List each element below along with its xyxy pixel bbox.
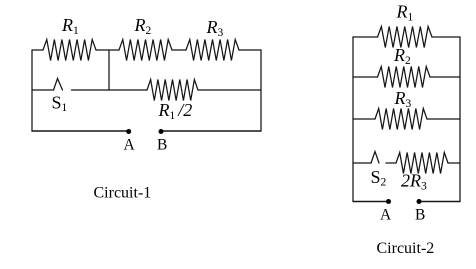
- wire: row2 right stub: [430, 76, 460, 78]
- svg-text:R1: R1: [61, 15, 79, 37]
- svg-text:B: B: [415, 207, 425, 224]
- svg-text:S2: S2: [371, 167, 387, 189]
- resistor R1/2 (circuit-1): [147, 80, 198, 101]
- resistor R3 (circuit-1): [186, 40, 239, 61]
- wire: bottom terminal B to right rail (circuit-2): [419, 201, 460, 203]
- node A terminal dot (circuit-1): [126, 129, 131, 134]
- svg-text:2R3: 2R3: [401, 171, 427, 193]
- node B terminal dot (circuit-2): [417, 199, 422, 204]
- svg-text:R3: R3: [394, 88, 412, 110]
- node A terminal dot (circuit-2): [386, 199, 391, 204]
- resistor R1 (circuit-1): [43, 40, 96, 61]
- resistor R2 (circuit-2): [378, 67, 431, 88]
- svg-text:R1: R1: [396, 2, 414, 24]
- wire: bottom terminal B to right rail: [161, 130, 261, 132]
- wire: row4 right stub: [448, 162, 460, 164]
- svg-text:Circuit-2: Circuit-2: [377, 240, 435, 257]
- resistor R3 (circuit-2): [375, 109, 427, 130]
- wire: middle branch right to rail: [198, 89, 261, 91]
- wire: top between R1 and R2: [96, 49, 119, 51]
- node B terminal dot (circuit-1): [159, 129, 164, 134]
- wire: circuit-1 left rail: [31, 50, 33, 131]
- switch S1 blade: [54, 79, 63, 91]
- svg-text:B: B: [157, 137, 167, 154]
- node: junction vertical between R1/R2 down to middle branch: [108, 50, 110, 90]
- wire: middle branch from switch gap to R1/2: [72, 89, 148, 91]
- svg-text:R2: R2: [134, 15, 152, 37]
- wire: row2 left stub: [353, 76, 378, 78]
- wire: row1 right stub: [432, 36, 460, 38]
- wire: top between R2 and R3: [172, 49, 186, 51]
- wire: row1 left stub: [353, 36, 378, 38]
- wire: circuit-1 right rail: [260, 50, 262, 131]
- svg-text:R2: R2: [393, 45, 411, 67]
- switch S2 blade: [371, 152, 379, 164]
- wire: row4 left stub to switch: [353, 162, 371, 164]
- wire: circuit-2 right rail: [459, 37, 461, 202]
- wire: row3 right stub: [427, 118, 460, 120]
- resistor R2 (circuit-1): [119, 40, 172, 61]
- wire: circuit-1 top wire segment left: [32, 49, 43, 51]
- svg-text:A: A: [380, 207, 392, 224]
- wire: row3 left stub: [353, 118, 375, 120]
- resistor R1 (circuit-2): [378, 27, 433, 48]
- svg-text:S1: S1: [52, 93, 68, 115]
- svg-text:R1 /2: R1 /2: [158, 100, 193, 122]
- wire: row4 switch gap to 2R3: [386, 162, 396, 164]
- wire: top right to rail: [239, 49, 261, 51]
- resistor 2R3 (circuit-2): [396, 153, 448, 174]
- wire: bottom left rail to terminal A (circuit-2): [353, 201, 389, 203]
- svg-text:R3: R3: [206, 17, 224, 39]
- svg-text:A: A: [124, 137, 136, 154]
- wire: bottom left rail to terminal A: [32, 130, 129, 132]
- wire: middle branch left from rail to switch: [32, 89, 54, 91]
- wire: circuit-2 left rail: [352, 37, 354, 202]
- svg-text:Circuit-1: Circuit-1: [94, 185, 152, 202]
